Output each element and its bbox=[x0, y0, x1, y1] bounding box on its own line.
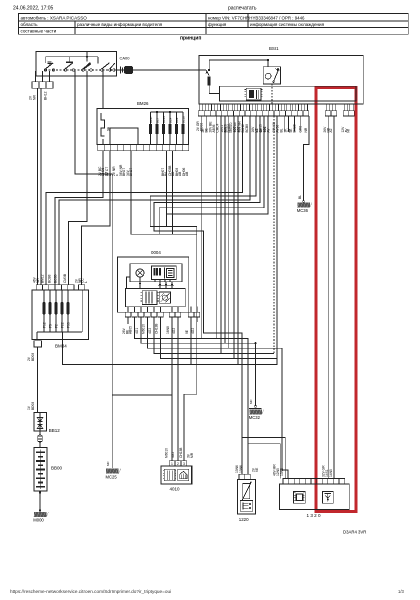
svg-text:HI: HI bbox=[346, 129, 350, 132]
svg-text:F33: F33 bbox=[66, 322, 70, 328]
svg-text:BC4: BC4 bbox=[168, 117, 172, 123]
svg-text:https://rescheme-networkservic: https://rescheme-networkservice.citroen.… bbox=[10, 589, 171, 594]
svg-text:3: 3 bbox=[183, 462, 185, 466]
svg-text:4G2: 4G2 bbox=[172, 328, 176, 334]
svg-text:BC27: BC27 bbox=[149, 116, 153, 123]
svg-text:MR: MR bbox=[190, 452, 194, 458]
svg-text:MC: MC bbox=[249, 399, 253, 404]
svg-text:D3AR4 3VR: D3AR4 3VR bbox=[343, 530, 366, 535]
svg-text:4010: 4010 bbox=[170, 486, 181, 491]
svg-text:BD08: BD08 bbox=[31, 402, 35, 410]
svg-text:4G2: 4G2 bbox=[191, 328, 195, 334]
svg-text:BC24: BC24 bbox=[162, 116, 166, 123]
svg-text:4G1: 4G1 bbox=[135, 328, 139, 334]
svg-text:BCB8: BCB8 bbox=[245, 124, 249, 133]
svg-text:F5: F5 bbox=[48, 324, 52, 328]
svg-text:автомобиль : XSARA PICASSO: автомобиль : XSARA PICASSO bbox=[21, 15, 88, 20]
svg-text:BB00: BB00 bbox=[51, 466, 63, 471]
svg-text:1: 1 bbox=[171, 462, 173, 466]
svg-text:CH13B: CH13B bbox=[155, 324, 159, 334]
svg-text:13N6: 13N6 bbox=[239, 465, 243, 473]
svg-text:F12: F12 bbox=[42, 322, 46, 328]
svg-text:AB: AB bbox=[185, 172, 189, 176]
svg-text:16N8: 16N8 bbox=[166, 326, 170, 334]
svg-text:CM3B: CM3B bbox=[63, 274, 67, 283]
svg-text:2: 2 bbox=[177, 462, 179, 466]
svg-text:BSI1: BSI1 bbox=[269, 46, 279, 51]
svg-text:1220: 1220 bbox=[239, 517, 249, 522]
svg-text:0004: 0004 bbox=[151, 250, 161, 255]
svg-text:BL: BL bbox=[298, 195, 302, 199]
svg-text:номер VIN: VF7CHRHYB33346847 /: номер VIN: VF7CHRHYB33346847 / OPR : 944… bbox=[208, 15, 305, 20]
svg-text:информация системы охлаждения: информация системы охлаждения bbox=[250, 22, 325, 27]
svg-text:CH13B: CH13B bbox=[179, 448, 183, 458]
svg-text:14N5: 14N5 bbox=[329, 469, 333, 477]
svg-text:VE: VE bbox=[255, 467, 259, 472]
svg-text:NR: NR bbox=[33, 95, 37, 100]
svg-text:MC25: MC25 bbox=[106, 474, 118, 479]
svg-text:NR: NR bbox=[304, 127, 308, 132]
svg-text:NR: NR bbox=[36, 278, 40, 283]
svg-text:L: L bbox=[84, 281, 88, 283]
svg-text:распечатать: распечатать bbox=[228, 6, 257, 12]
svg-text:CA00: CA00 bbox=[120, 56, 131, 61]
svg-text:M6010: M6010 bbox=[164, 448, 168, 458]
svg-text:4G2: 4G2 bbox=[148, 328, 152, 334]
svg-text:область: область bbox=[21, 22, 39, 27]
svg-text:BC8: BC8 bbox=[175, 117, 179, 123]
svg-text:13N5: 13N5 bbox=[280, 468, 284, 476]
svg-text:принцип: принцип bbox=[180, 35, 201, 41]
svg-text:MC32: MC32 bbox=[249, 415, 261, 420]
svg-text:A2: A2 bbox=[329, 128, 333, 132]
svg-text:F22: F22 bbox=[60, 322, 64, 328]
svg-text:BC3B: BC3B bbox=[54, 275, 58, 284]
svg-text:BM12: BM12 bbox=[41, 274, 45, 283]
svg-text:MC: MC bbox=[106, 461, 110, 466]
svg-text:различные виды информации води: различные виды информации водителя bbox=[77, 22, 163, 27]
svg-text:BM26: BM26 bbox=[137, 101, 149, 106]
svg-text:AB05: AB05 bbox=[129, 326, 133, 334]
svg-text:BCB8: BCB8 bbox=[48, 274, 52, 283]
svg-text:24.06.2022, 17:05: 24.06.2022, 17:05 bbox=[13, 6, 54, 12]
svg-text:M000: M000 bbox=[33, 518, 44, 523]
svg-text:BD08: BD08 bbox=[31, 353, 35, 361]
svg-text:F2: F2 bbox=[54, 324, 58, 328]
svg-text:9E: 9E bbox=[185, 329, 189, 334]
svg-text:составные части: составные части bbox=[21, 29, 57, 34]
svg-text:BH12: BH12 bbox=[44, 91, 48, 100]
svg-text:M6010: M6010 bbox=[142, 324, 146, 334]
svg-text:функция: функция bbox=[208, 22, 227, 27]
svg-text:BC18: BC18 bbox=[181, 116, 185, 123]
svg-text:MC36: MC36 bbox=[297, 208, 309, 213]
svg-text:BC7: BC7 bbox=[155, 117, 159, 123]
svg-text:BB12: BB12 bbox=[49, 428, 61, 433]
svg-text:BM34: BM34 bbox=[55, 343, 67, 348]
svg-text:1/3: 1/3 bbox=[398, 589, 404, 594]
svg-text:1 3 2 0: 1 3 2 0 bbox=[307, 513, 321, 518]
svg-text:4G2: 4G2 bbox=[171, 452, 175, 458]
